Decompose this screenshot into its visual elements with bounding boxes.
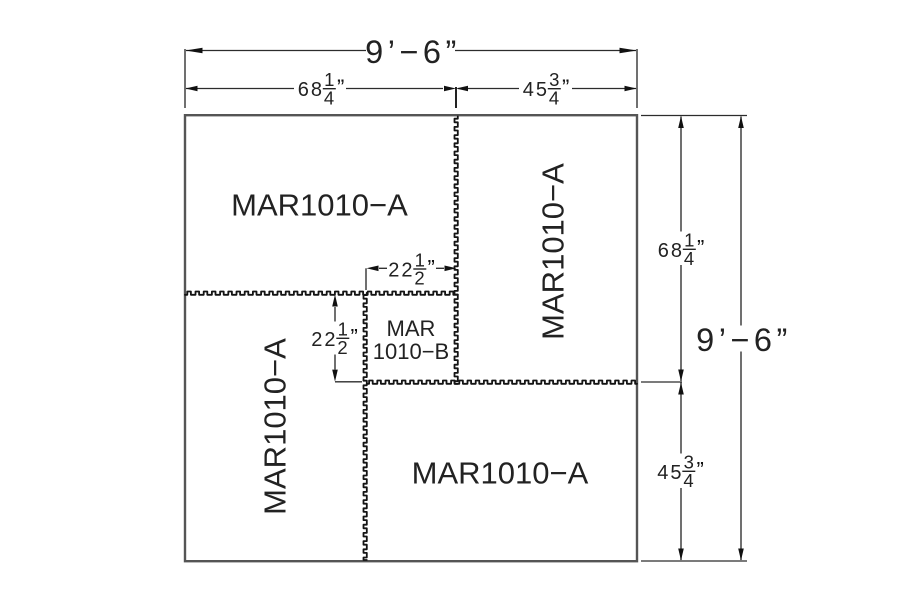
extension line right of top edge [641, 115, 747, 117]
svg-text:45: 45 [523, 79, 549, 101]
seam: horizontal interlock edge above bottom mat [367, 381, 637, 384]
dimension 9'-6" right [696, 116, 792, 561]
svg-text:2: 2 [337, 337, 347, 358]
svg-text:4: 4 [683, 470, 693, 491]
svg-text:”: ” [562, 75, 569, 100]
dimension 68 1/4" right [658, 116, 705, 382]
extension line above top-left corner [184, 49, 186, 108]
svg-text:MAR: MAR [387, 316, 436, 341]
dimension 45 3/4" right [657, 383, 704, 561]
dimension 68 1/4" top [186, 69, 457, 108]
seam: vertical interlock edge right of bottom-left mat [364, 293, 367, 560]
svg-text:9’−6”: 9’−6” [365, 34, 461, 70]
svg-text:MAR1010−A: MAR1010−A [231, 188, 408, 223]
svg-text:MAR1010−A: MAR1010−A [257, 338, 292, 515]
center tick stem between top dimensions [455, 87, 457, 108]
svg-text:MAR1010−A: MAR1010−A [412, 456, 589, 491]
svg-text:MAR1010−A: MAR1010−A [535, 163, 570, 340]
dimension 22 1/2" above B [366, 249, 457, 290]
extension line above top-right corner [636, 49, 638, 108]
dimension 45 3/4" top [456, 69, 637, 108]
svg-text:”: ” [428, 255, 435, 280]
svg-text:22: 22 [311, 329, 337, 351]
svg-text:4: 4 [684, 248, 694, 269]
main mat area outline [185, 115, 637, 561]
svg-text:9’−6”: 9’−6” [696, 322, 792, 358]
svg-text:”: ” [351, 325, 358, 350]
svg-text:4: 4 [324, 87, 334, 108]
svg-text:68: 68 [658, 240, 684, 262]
svg-text:45: 45 [657, 462, 683, 484]
svg-text:”: ” [697, 236, 704, 261]
svg-text:”: ” [337, 75, 344, 100]
extension line right of middle seam [641, 381, 682, 383]
seam: horizontal interlock edge under top-left mat [185, 292, 458, 295]
svg-text:2: 2 [414, 268, 424, 289]
svg-text:4: 4 [549, 87, 559, 108]
extension line right of bottom edge [641, 560, 747, 562]
dimension 9'-6" top [186, 34, 637, 70]
dimension 22 1/2" left of B [311, 295, 362, 382]
svg-text:22: 22 [388, 260, 414, 282]
seam: vertical interlock edge right of top-left mat and B [455, 116, 458, 383]
svg-text:”: ” [697, 458, 704, 483]
svg-text:1010−B: 1010−B [373, 339, 449, 364]
svg-text:68: 68 [298, 79, 324, 101]
